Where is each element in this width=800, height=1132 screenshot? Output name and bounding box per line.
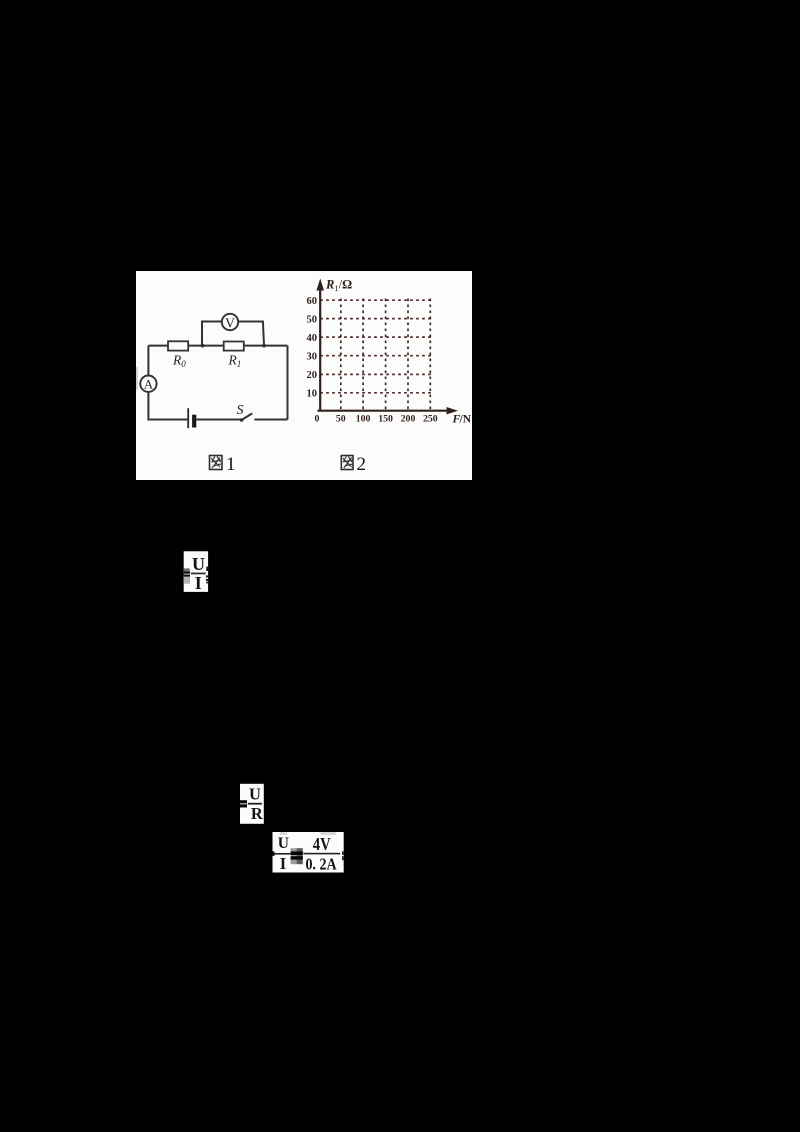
svg-text:S: S [237,403,244,418]
resistor R0 [168,341,188,350]
gridline vertical 250 [429,299,431,410]
graph x-axis F/N [318,410,450,412]
figure panel (white scan area) [136,271,472,480]
svg-text:30: 30 [307,352,318,363]
svg-text:200: 200 [401,414,416,425]
formula =U/I (first) [184,551,208,593]
svg-text:150: 150 [378,414,393,425]
svg-text:2: 2 [357,454,367,475]
svg-text:50: 50 [307,314,318,325]
gridline horizontal 40 [320,336,433,338]
svg-text:50: 50 [336,414,346,425]
wire top-left segment [148,345,168,347]
svg-text:U: U [249,784,261,803]
gridline vertical 150 [385,299,387,410]
ammeter A [140,376,156,392]
caption fig2 glyph [341,456,353,470]
svg-text:1: 1 [226,454,236,475]
gridline horizontal 50 [320,318,433,320]
svg-text:U: U [278,835,289,852]
gridline vertical 200 [407,299,409,410]
gridline horizontal 20 [320,373,433,375]
svg-text:20: 20 [307,370,318,381]
scan artifact sliver [136,367,138,390]
svg-text:10: 10 [307,389,318,400]
node junction right (voltmeter tap) [262,344,266,348]
svg-text:250: 250 [423,414,438,425]
wire switch to bottom-right corner [254,419,287,421]
gridline horizontal 60 [320,299,433,301]
svg-text:U: U [192,554,205,574]
wire left vertical lower [148,392,188,420]
caption fig1 glyph [210,456,223,470]
svg-text:A: A [144,376,154,391]
svg-text:R: R [251,804,264,823]
svg-text:I: I [195,573,202,593]
node junction left (voltmeter tap) [201,344,205,348]
formula =U/I=4V/0.2A (third) [273,832,344,874]
svg-text:40: 40 [307,333,318,344]
svg-text:R1/Ω: R1/Ω [325,278,352,294]
formula =U/R (second) [240,784,264,824]
svg-text:I: I [280,854,286,873]
gridline horizontal 10 [320,392,433,394]
graph y-axis R1/ohm [319,286,321,411]
wire voltmeter branch right [238,322,264,346]
svg-text:4V: 4V [313,836,331,854]
svg-text:0: 0 [315,414,320,425]
gridline vertical 50 [340,299,342,410]
gridline horizontal 30 [320,355,433,357]
wire battery to switch [196,419,241,421]
wire R1 to top-right corner [244,345,288,347]
svg-text:100: 100 [356,414,371,425]
switch S [240,418,244,422]
resistor R1 [224,342,244,351]
svg-text:60: 60 [307,296,318,307]
wire R0 to R1 [188,345,224,347]
voltmeter V [222,314,238,330]
wire right vertical [287,346,289,420]
gridline vertical 100 [362,299,364,410]
svg-text:0. 2A: 0. 2A [306,856,337,874]
svg-text:V: V [225,315,235,330]
battery cell [187,408,189,428]
wire left vertical upper [147,346,149,376]
wire voltmeter branch left [202,322,222,346]
svg-text:/N: /N [459,414,472,426]
